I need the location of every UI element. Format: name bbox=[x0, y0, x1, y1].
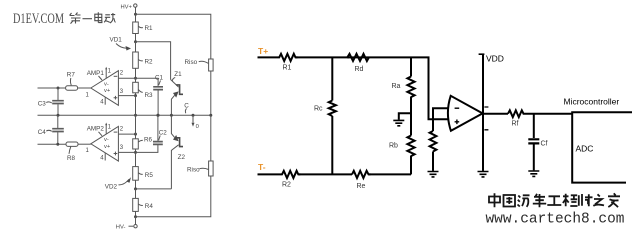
svg-text:C1: C1 bbox=[155, 75, 164, 82]
wire bottom rail mid bbox=[299, 173, 353, 175]
resistor Rc bbox=[314, 101, 336, 117]
node C3 input1 bbox=[57, 87, 60, 90]
wire mid rail to Riso2 bbox=[210, 115, 212, 161]
wire Rc branch bbox=[331, 57, 333, 100]
svg-text:0: 0 bbox=[196, 124, 199, 130]
wire top rail bbox=[136, 14, 211, 59]
svg-text:C4: C4 bbox=[38, 129, 47, 136]
svg-text:AMP1: AMP1 bbox=[87, 70, 105, 77]
svg-text:ADC: ADC bbox=[576, 144, 594, 154]
svg-text:v+: v+ bbox=[104, 88, 111, 94]
zener Z1 bbox=[171, 71, 183, 115]
wire pin3 AMP1 bbox=[118, 95, 135, 97]
svg-text:R2: R2 bbox=[282, 182, 291, 189]
wire top rail to comparator bbox=[296, 57, 451, 119]
svg-text:VD1: VD1 bbox=[110, 37, 123, 44]
svg-text:C3: C3 bbox=[38, 101, 47, 108]
svg-text:R1: R1 bbox=[145, 25, 154, 32]
wire Rb to bottom rail bbox=[410, 156, 412, 175]
svg-text:R2: R2 bbox=[145, 58, 154, 65]
svg-text:Rf: Rf bbox=[512, 120, 519, 127]
resistor R7 bbox=[66, 72, 91, 91]
wire R2 to pin2 node bbox=[135, 68, 137, 78]
resistor R4 bbox=[133, 198, 154, 211]
wire junction to Z1 collector bbox=[136, 42, 171, 80]
power VDD bbox=[479, 54, 504, 171]
wire to R1 bbox=[135, 14, 137, 22]
op-amp AMP1 bbox=[86, 67, 124, 106]
wire top rail bbox=[258, 56, 278, 58]
wire bottom rail to Rb branch bbox=[369, 173, 412, 175]
resistor R2 bbox=[280, 171, 300, 189]
node Z1 mid rail bbox=[170, 114, 173, 117]
resistor R2 bbox=[133, 52, 153, 68]
wire bus to mid rail bbox=[135, 96, 137, 116]
resistor R8 bbox=[66, 142, 91, 162]
wire Rc to bottom rail bbox=[331, 116, 333, 174]
capacitor C4 bbox=[38, 115, 64, 144]
svg-text:www.cartech8.com: www.cartech8.com bbox=[486, 211, 625, 228]
svg-text:Cf: Cf bbox=[541, 140, 548, 147]
wire R3 to pin3 node bbox=[135, 93, 137, 96]
ground Cf bbox=[528, 171, 539, 176]
zener Z2 bbox=[171, 115, 185, 189]
wire C1 to mid rail bbox=[157, 90, 159, 115]
svg-text:HV+: HV+ bbox=[121, 5, 133, 11]
svg-text:D1EV.COM: D1EV.COM bbox=[13, 11, 64, 27]
wire mid rail to R6 bbox=[135, 115, 137, 139]
watermark 中国汽车工程师之家 bbox=[489, 193, 620, 207]
resistor Riso top bbox=[185, 59, 214, 71]
resistor R1 bbox=[277, 54, 298, 72]
svg-text:R7: R7 bbox=[67, 72, 76, 79]
wire Ra to Rb bbox=[410, 97, 412, 136]
resistor Rb bbox=[389, 136, 415, 157]
svg-text:Ra: Ra bbox=[392, 83, 401, 90]
ground VDD line bbox=[478, 172, 489, 177]
wire R1 to junction bbox=[135, 34, 137, 42]
svg-text:Riso: Riso bbox=[185, 59, 198, 66]
resistor R1 bbox=[133, 22, 153, 34]
watermark D1EV.COM 第一电动 bbox=[13, 11, 116, 27]
svg-text:Rd: Rd bbox=[355, 66, 364, 73]
node bottom junction bbox=[134, 215, 137, 218]
node C3 mid rail bbox=[57, 114, 60, 117]
wire pin2 net to C1 bbox=[118, 78, 158, 86]
node pin3 AMP2 bbox=[134, 151, 137, 154]
diode label VD2 bbox=[105, 177, 131, 190]
svg-text:Microcontroller: Microcontroller bbox=[564, 97, 620, 107]
svg-text:C: C bbox=[184, 102, 189, 109]
svg-text:VD2: VD2 bbox=[105, 183, 118, 190]
ground reference resistor bbox=[428, 172, 439, 177]
svg-text:AMP2: AMP2 bbox=[87, 126, 105, 133]
node bus mid rail bbox=[134, 114, 137, 117]
resistor reference bbox=[430, 131, 437, 151]
wire Riso2 to bottom junction bbox=[136, 176, 211, 217]
wire Z2 to R5 junction bbox=[136, 188, 172, 190]
node below R5 bbox=[134, 187, 137, 190]
svg-text:T-: T- bbox=[258, 162, 266, 172]
svg-text:VDD: VDD bbox=[486, 54, 504, 64]
node C label bbox=[184, 102, 189, 113]
wire to ground bbox=[432, 152, 434, 171]
resistor Re bbox=[352, 171, 371, 190]
capacitor C1 bbox=[153, 75, 163, 90]
op-amp comparator U1 bbox=[448, 96, 483, 131]
node Riso mid rail bbox=[209, 114, 212, 117]
op-amp AMP2 bbox=[86, 123, 124, 162]
wire R5 to junction bbox=[135, 180, 137, 189]
wire Cf to ground bbox=[533, 145, 535, 171]
svg-text:R1: R1 bbox=[283, 65, 292, 72]
node pin2 AMP1 bbox=[134, 77, 137, 80]
svg-text:R5: R5 bbox=[145, 172, 154, 179]
HV- terminal bbox=[116, 217, 137, 231]
svg-text:Rb: Rb bbox=[389, 143, 398, 150]
wire R6 to pin3 node bbox=[135, 149, 137, 152]
wire bottom rail bbox=[258, 173, 281, 175]
resistor Riso bottom bbox=[187, 161, 213, 176]
svg-text:Z1: Z1 bbox=[174, 71, 182, 78]
capacitor C2 bbox=[153, 130, 167, 145]
diode label VD1 bbox=[110, 37, 132, 51]
wire Ra branch bbox=[410, 57, 412, 76]
node top junction bbox=[134, 13, 137, 16]
input line 1 bbox=[38, 87, 66, 89]
svg-text:R8: R8 bbox=[67, 155, 76, 162]
svg-text:v-: v- bbox=[104, 81, 109, 87]
wire mid rail C bbox=[38, 114, 211, 116]
resistor R5 bbox=[133, 167, 154, 181]
node C1 mid rail bbox=[157, 114, 160, 117]
svg-text:v-: v- bbox=[104, 137, 109, 143]
svg-text:R4: R4 bbox=[145, 203, 154, 210]
wire output bbox=[483, 113, 508, 115]
node C2 mid rail bbox=[156, 114, 159, 117]
ground stub Ra/Rb node bbox=[393, 113, 411, 126]
svg-text:HV-: HV- bbox=[116, 225, 126, 231]
wire junction to R4 bbox=[135, 189, 137, 199]
svg-text:R6: R6 bbox=[144, 136, 153, 143]
wire comparator minus loop bbox=[433, 108, 450, 131]
capacitor Cf bbox=[528, 139, 547, 147]
svg-text:v+: v+ bbox=[104, 144, 111, 150]
node C4 input2 bbox=[56, 143, 59, 146]
svg-text:Riso: Riso bbox=[187, 167, 200, 174]
svg-text:T+: T+ bbox=[258, 46, 268, 56]
wire Rf to box bbox=[526, 113, 573, 115]
input line 2 bbox=[38, 143, 67, 145]
svg-text:R3: R3 bbox=[145, 92, 154, 99]
resistor Ra bbox=[392, 77, 415, 98]
HV+ terminal bbox=[121, 4, 138, 11]
wire bus to R5 bbox=[135, 152, 137, 166]
wire HV+ to top junction bbox=[135, 7, 137, 14]
node pin3 AMP1 bbox=[134, 94, 137, 97]
svg-text:Z2: Z2 bbox=[178, 154, 186, 161]
resistor Rd bbox=[347, 54, 369, 73]
wire Riso1 to mid rail bbox=[210, 71, 212, 115]
svg-text:Re: Re bbox=[357, 183, 366, 190]
wire pin3 AMP2 net to C2 bbox=[118, 145, 157, 152]
wire R4 to bottom junction bbox=[135, 211, 137, 216]
node below R1 bbox=[134, 40, 137, 43]
resistor R3 bbox=[133, 78, 153, 99]
node pin2 AMP2 bbox=[134, 133, 137, 136]
wire pin2 AMP2 bbox=[118, 133, 135, 135]
wire to R2 bbox=[135, 42, 137, 52]
svg-text:Rc: Rc bbox=[314, 106, 323, 113]
capacitor C3 bbox=[38, 88, 64, 115]
wire C2 to mid rail bbox=[157, 115, 159, 141]
wire Cf branch bbox=[533, 114, 535, 138]
resistor R6 bbox=[133, 136, 153, 149]
Microcontroller box bbox=[564, 97, 632, 183]
terminal 0 output bbox=[192, 114, 199, 131]
resistor Rf bbox=[508, 110, 526, 127]
